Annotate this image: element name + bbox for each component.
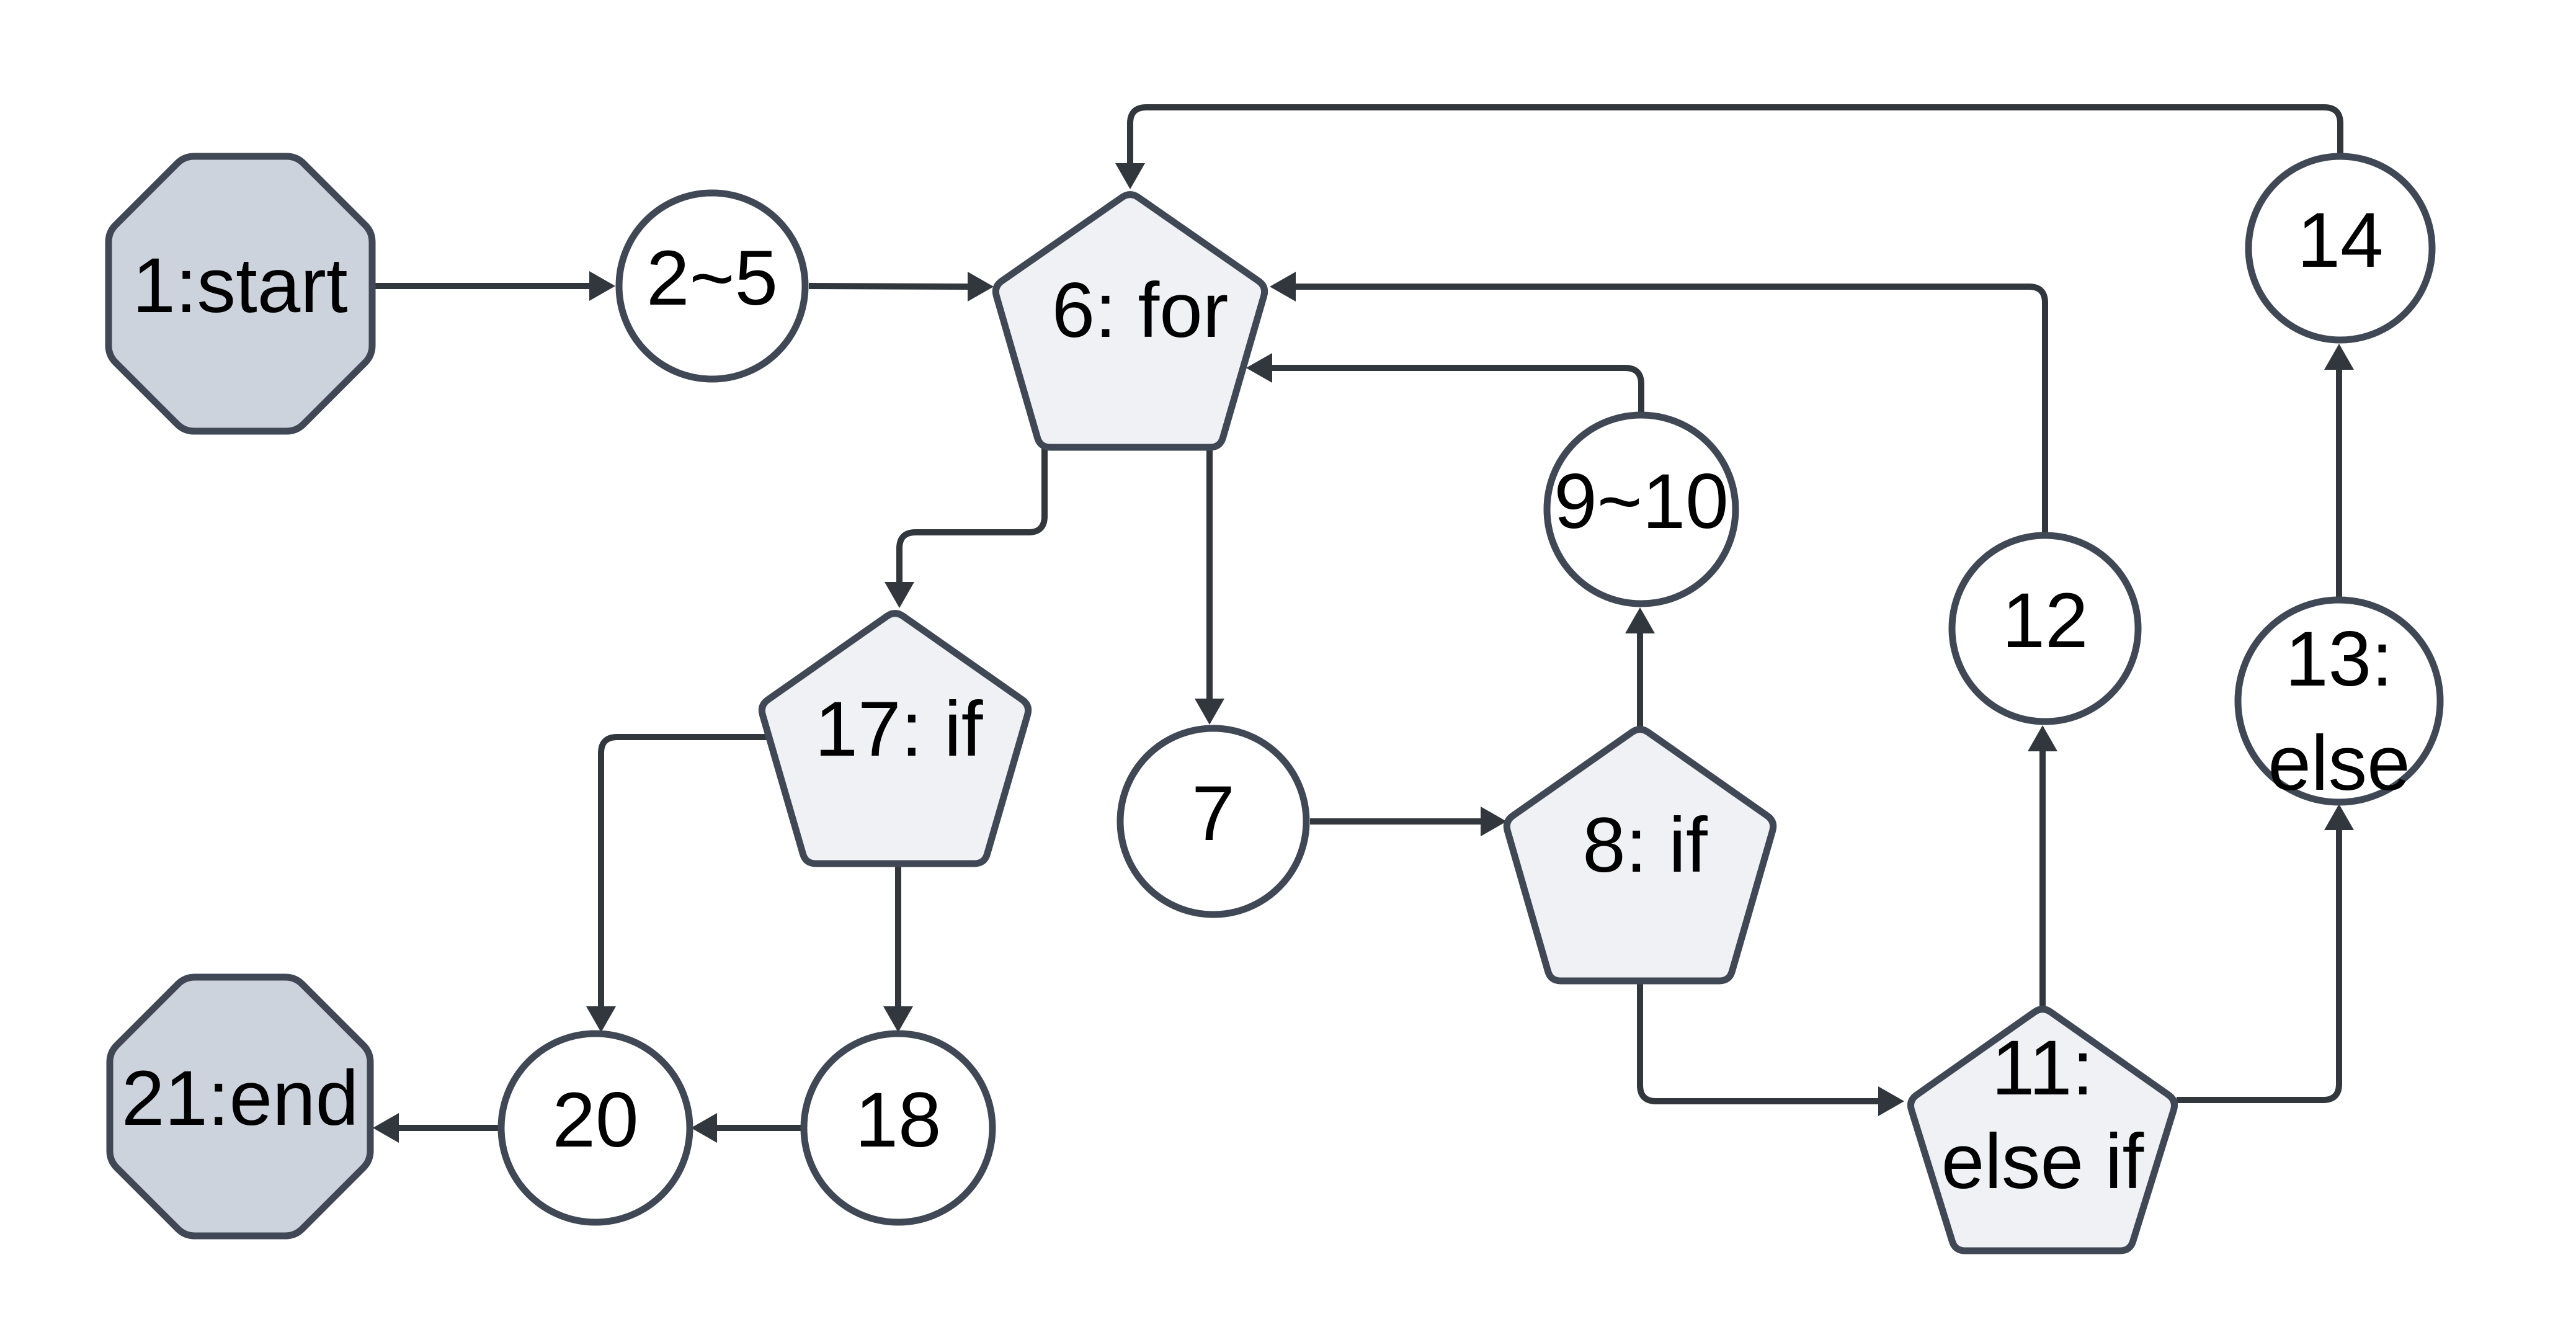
wire 17:if to 20 — [586, 737, 769, 1032]
svg-text:14: 14 — [2297, 197, 2383, 284]
wire 11:else-if to 13:else — [2177, 804, 2354, 1100]
svg-text:8: if: 8: if — [1582, 802, 1708, 888]
wire 8:if to 9~10 — [1625, 607, 1655, 727]
svg-text:7: 7 — [1192, 771, 1235, 857]
svg-text:11:: 11: — [1992, 1025, 2094, 1111]
wire 14 to 6:for top loop — [1115, 107, 2340, 189]
svg-text:20: 20 — [552, 1077, 638, 1163]
node 1:start octagon — [109, 156, 372, 431]
svg-text:6: for: 6: for — [1052, 267, 1229, 354]
node 21:end octagon — [110, 977, 370, 1236]
svg-text:18: 18 — [855, 1077, 941, 1163]
svg-text:17: if: 17: if — [815, 686, 983, 772]
node 14 circle — [2248, 156, 2432, 340]
wire 1:start to 2~5 — [370, 271, 615, 301]
svg-text:else: else — [2268, 720, 2410, 807]
svg-text:12: 12 — [2002, 578, 2088, 664]
svg-text:9~10: 9~10 — [1554, 458, 1729, 545]
svg-text:2~5: 2~5 — [646, 235, 778, 321]
node 6: for pentagon — [996, 195, 1264, 447]
wire 20 to 21:end — [373, 1113, 500, 1143]
wire 9~10 to 6:for — [1246, 353, 1641, 413]
node 20 circle — [501, 1034, 690, 1222]
node 8: if pentagon — [1507, 730, 1773, 981]
wire 7 to 8:if — [1310, 807, 1507, 836]
node 17: if pentagon — [762, 614, 1028, 864]
wire 2~5 to 6:for — [809, 272, 994, 302]
node 12 circle — [1952, 535, 2138, 722]
wire 13:else to 14 — [2324, 344, 2354, 598]
svg-text:1:start: 1:start — [132, 243, 347, 329]
node 7 circle — [1120, 728, 1306, 914]
node 2~5 circle — [619, 193, 805, 379]
svg-text:21:end: 21:end — [122, 1055, 359, 1142]
node 18 circle — [804, 1034, 992, 1222]
wire 6:for to 17:if — [885, 447, 1045, 608]
svg-text:13:: 13: — [2285, 616, 2393, 702]
node 13: else circle — [2238, 600, 2440, 807]
wire 11:else-if to 12 — [2028, 725, 2057, 1006]
node 9~10 circle — [1547, 415, 1736, 604]
wire 17:if to 18 — [883, 864, 913, 1032]
wire 6:for to 7 — [1195, 447, 1224, 725]
wire 8:if to 11:else-if — [1640, 981, 1904, 1116]
node 11: else if pentagon — [1910, 1009, 2174, 1251]
svg-text:else if: else if — [1941, 1119, 2144, 1205]
wire 12 to 6:for — [1270, 272, 2045, 535]
wire 18 to 20 — [691, 1113, 803, 1143]
